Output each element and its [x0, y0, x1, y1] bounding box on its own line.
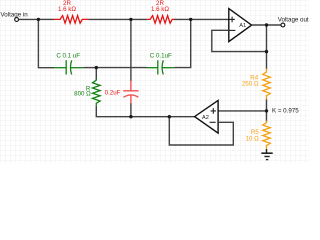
resistor R4 250 Ohm (vertical, orange): [263, 69, 271, 100]
wire node D down to R3: [95, 68, 97, 81]
A1 feedback junction: [265, 50, 268, 53]
svg-text:1.6 kΩ: 1.6 kΩ: [58, 6, 76, 13]
wire A1 output down to R4: [266, 25, 268, 70]
wire bottom rail to A2 output: [131, 116, 195, 118]
svg-text:800 Ω: 800 Ω: [74, 91, 91, 98]
node A junction: [37, 18, 40, 21]
op-amp A1: [229, 9, 252, 42]
node B junction: [129, 18, 132, 21]
node C junction: [189, 18, 192, 21]
svg-text:C 0.1 uF: C 0.1 uF: [56, 53, 80, 60]
node D junction: [95, 66, 98, 69]
svg-text:10 Ω: 10 Ω: [246, 136, 260, 143]
wire node B to R2 left lead: [131, 18, 147, 20]
bottom rail junction at 2C: [129, 115, 132, 118]
svg-text:Voltage out: Voltage out: [278, 17, 309, 24]
bottom rail junction at A2 feedback: [168, 115, 171, 118]
wire node K to A2 noninverting input: [218, 110, 266, 112]
wire node A down to capacitor row: [38, 19, 54, 67]
wire R1 to node B: [89, 18, 131, 20]
svg-text:1.6 kΩ: 1.6 kΩ: [151, 6, 169, 13]
wire node A to R1 left lead: [38, 18, 53, 20]
resistor 2R 1.6k (left, R1): [53, 16, 88, 24]
capacitor C 0.1uF (right, C2): [147, 60, 174, 74]
wire A1 inverting input feedback: [212, 30, 267, 51]
wire R5 to ground: [266, 149, 268, 153]
op-amp A2 (pointing left): [195, 100, 219, 133]
wire R4 to node K: [266, 99, 268, 111]
wire input to node A: [18, 18, 38, 20]
resistor R 800 Ohm (R3, vertical): [93, 78, 101, 105]
terminal Voltage in: [1, 12, 29, 22]
svg-text:Voltage in: Voltage in: [1, 12, 29, 19]
wire A1 output to Voltage out: [252, 24, 282, 26]
resistor R5 10 Ohm (vertical, orange): [263, 121, 271, 150]
wire A2 inverting input feedback loop: [169, 117, 233, 145]
node K junction: [265, 109, 268, 112]
A1 output junction: [265, 23, 268, 26]
capacitor C 0.1uF (left, C1): [54, 60, 83, 74]
terminal Voltage out: [278, 17, 309, 27]
wire 2C to bottom rail: [130, 103, 132, 116]
wire node D to C2 left lead: [96, 67, 147, 69]
ground: [261, 153, 272, 159]
svg-text:A1: A1: [239, 23, 246, 29]
wire node B down to cap 2C: [130, 19, 132, 81]
svg-text:K = 0.975: K = 0.975: [272, 108, 299, 115]
wire node C to A1 noninverting input: [191, 18, 229, 20]
resistor 2R 1.6k (right, R2): [147, 16, 176, 24]
svg-text:C 0.1uF: C 0.1uF: [150, 52, 172, 59]
wire R2 to node C: [175, 18, 191, 20]
wire R3 to bottom rail: [96, 106, 131, 117]
svg-text:250 Ω: 250 Ω: [242, 80, 259, 87]
wire C2 up to node C: [174, 19, 191, 67]
capacitor 0.2uF (2C, vertical, red): [123, 81, 138, 104]
wire node K down to R5: [266, 111, 268, 122]
wire C1 to node D: [83, 67, 96, 69]
svg-text:0.2uF: 0.2uF: [105, 90, 121, 97]
svg-text:A2: A2: [202, 115, 209, 121]
